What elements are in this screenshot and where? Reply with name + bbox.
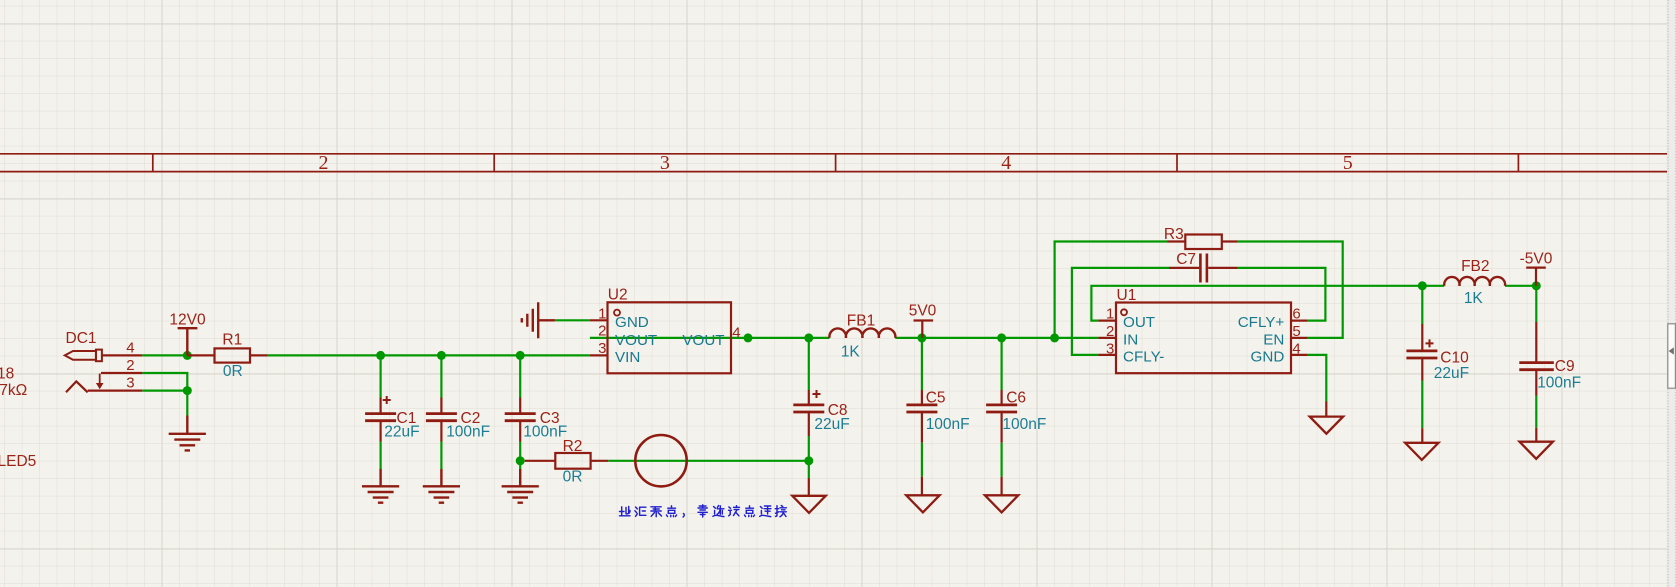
resistor R1: [187, 348, 267, 362]
U2 pin1 marker circle: [614, 310, 620, 316]
connector DC1 pin 4: [102, 354, 142, 356]
wire FB1 to 5V junction then to U1 IN: [895, 337, 1098, 339]
IC U2 box: [608, 302, 732, 373]
junction DC1 12V: [183, 351, 192, 360]
svg-text:GND: GND: [615, 314, 649, 331]
svg-text:U2: U2: [608, 287, 628, 304]
wire C10 tap: [1421, 286, 1423, 324]
svg-text:2: 2: [319, 152, 329, 174]
svg-text:2: 2: [126, 357, 134, 374]
svg-text:7kΩ: 7kΩ: [0, 382, 27, 399]
svg-text:1K: 1K: [841, 344, 861, 361]
svg-text:C10: C10: [1440, 349, 1469, 366]
svg-text:LED5: LED5: [0, 453, 36, 470]
svg-text:100nF: 100nF: [1537, 374, 1581, 391]
svg-text:3: 3: [126, 375, 134, 392]
wire DC1 pin4 to 12V junction: [142, 354, 187, 356]
wire FB2 to -5V junction: [1505, 285, 1536, 287]
wire C3 tap: [519, 355, 521, 397]
U2 pin 1 stub: [590, 319, 608, 321]
junction C3-R2: [516, 456, 525, 465]
svg-text:100nF: 100nF: [926, 416, 970, 433]
wire DC1 pin2 to down corner: [142, 373, 187, 391]
ground under C2: [423, 469, 460, 503]
svg-text:FB2: FB2: [1461, 258, 1489, 275]
glyph kao: [698, 505, 707, 517]
ferrite bead FB1: [829, 328, 895, 337]
wire DC1 junction down to ground: [186, 391, 188, 416]
junction C3: [516, 351, 525, 360]
connector DC1 barrel jack: [65, 350, 102, 362]
scrollbar thumb: [1668, 324, 1676, 388]
wire C5 tap: [921, 338, 923, 390]
U1 pin1 marker circle: [1121, 309, 1127, 315]
svg-text:5: 5: [1343, 152, 1353, 174]
junction 5V R3 branch: [1050, 333, 1059, 342]
ground under C3: [502, 469, 539, 503]
glyph gai: [729, 506, 740, 516]
svg-text:FB1: FB1: [847, 313, 875, 330]
capacitor C2: [426, 398, 457, 442]
wire R2 to circle to C8 ground junction: [608, 460, 809, 462]
wire C10 lower: [1421, 381, 1423, 429]
svg-text:6: 6: [1292, 306, 1300, 323]
triangle ground at U1 GND: [1310, 417, 1343, 434]
sheet border zone strip: [0, 154, 1667, 172]
glyph hui: [635, 507, 646, 516]
glyph jie: [775, 506, 786, 517]
svg-text:22uF: 22uF: [814, 416, 849, 433]
svg-text:4: 4: [732, 324, 740, 341]
svg-text:4: 4: [126, 339, 134, 356]
wire CFLY- to C7 left: [1072, 268, 1169, 355]
triangle ground under C10: [1405, 443, 1438, 460]
svg-text:5V0: 5V0: [909, 303, 937, 320]
svg-text:18: 18: [0, 366, 14, 383]
glyph lian: [760, 506, 771, 517]
svg-text:3: 3: [660, 152, 670, 174]
glyph di: [620, 507, 631, 516]
power 12V0 symbol: [178, 328, 198, 355]
svg-text:VOUT: VOUT: [615, 332, 657, 349]
svg-text:U1: U1: [1117, 287, 1137, 304]
glyph dian: [667, 506, 677, 517]
svg-text:3: 3: [598, 340, 606, 357]
svg-text:100nF: 100nF: [523, 424, 567, 441]
svg-text:22uF: 22uF: [1434, 365, 1469, 382]
scrollbar collapse arrow: [1669, 347, 1674, 354]
svg-text:CFLY-: CFLY-: [1123, 348, 1164, 365]
triangle ground under C5: [906, 495, 939, 512]
svg-text:0R: 0R: [223, 363, 243, 380]
wire C2 tap: [440, 355, 442, 397]
glyph dian2: [745, 506, 755, 517]
connector DC1 pin 2: [101, 372, 142, 374]
wire C7 right to CFLY+: [1238, 268, 1326, 321]
capacitor C6: [986, 390, 1017, 443]
capacitor C5: [906, 390, 937, 443]
svg-text:C7: C7: [1176, 251, 1196, 268]
svg-text:1K: 1K: [1464, 290, 1484, 307]
svg-text:-5V0: -5V0: [1520, 251, 1553, 268]
wire C5 lower: [921, 443, 923, 477]
connector DC1 switch arrow: [96, 374, 104, 390]
svg-text:R1: R1: [222, 332, 242, 349]
svg-text:100nF: 100nF: [1002, 416, 1046, 433]
svg-text:22uF: 22uF: [384, 424, 419, 441]
svg-text:CFLY+: CFLY+: [1238, 314, 1285, 331]
svg-text:VIN: VIN: [615, 349, 640, 366]
sideways ground at U2 GND: [522, 302, 555, 338]
svg-text:5: 5: [1292, 323, 1300, 340]
resistor R3: [1168, 235, 1238, 250]
junction C8 top: [804, 333, 813, 342]
svg-text:C6: C6: [1006, 390, 1026, 407]
glyph comma: [683, 514, 684, 518]
svg-text:4: 4: [1001, 152, 1011, 174]
net-tie circle: [635, 435, 686, 486]
wire R3 right to EN: [1238, 242, 1343, 338]
svg-text:3: 3: [1106, 340, 1114, 357]
junction C1: [376, 351, 385, 360]
wire C1 lower: [380, 442, 382, 470]
wire C1 tap: [380, 355, 382, 397]
triangle ground under C8: [792, 496, 825, 513]
capacitor C1 (polarized): [365, 396, 396, 442]
svg-text:2: 2: [598, 323, 606, 340]
wire 5V up to R3 row: [1055, 242, 1168, 338]
svg-text:OUT: OUT: [1123, 314, 1155, 331]
Chinese note text (hand-drawn glyphs): [620, 505, 787, 517]
wire U1 OUT rail to FB2: [1091, 286, 1444, 321]
junction -5V C9: [1532, 281, 1541, 290]
wire C8 lower through junction: [808, 436, 810, 478]
glyph ju: [651, 507, 662, 517]
svg-text:1: 1: [1106, 306, 1114, 323]
wire C3 lower to R2 junction: [519, 442, 521, 470]
wire C9 tap: [1535, 286, 1537, 322]
power 5V0 symbol: [914, 321, 934, 338]
U1 pin stubs right: [1291, 321, 1308, 355]
junction C2: [437, 351, 446, 360]
wire U1 GND pin to ground: [1308, 355, 1327, 402]
capacitor C9: [1519, 322, 1554, 396]
U1 pin stubs left: [1098, 321, 1116, 355]
svg-text:1: 1: [598, 305, 606, 322]
IC U1 box: [1116, 303, 1291, 374]
ferrite bead FB2: [1444, 277, 1505, 286]
wire 12V rail R1 to U2 VIN: [268, 354, 590, 356]
triangle ground under C9: [1520, 442, 1553, 459]
scrollbar track: [1668, 0, 1676, 587]
wire C9 lower: [1535, 396, 1537, 428]
connector DC1 switch contact: [66, 381, 88, 392]
connector DC1 pin 3: [88, 390, 143, 392]
resistor R2: [525, 453, 609, 469]
junction C8 bottom: [804, 456, 813, 465]
svg-text:R2: R2: [563, 438, 583, 455]
capacitor C10 (polarized): [1406, 324, 1437, 381]
wire U2 VOUT rail through box to FB1: [590, 337, 830, 339]
junction 5V C6: [997, 333, 1006, 342]
svg-text:GND: GND: [1251, 348, 1285, 365]
svg-text:2: 2: [1106, 323, 1114, 340]
power -5V0 symbol: [1526, 268, 1546, 286]
junction C10: [1418, 281, 1427, 290]
wire C8 top tap: [808, 338, 810, 390]
svg-text:0R: 0R: [563, 469, 583, 486]
triangle ground under C6: [985, 495, 1018, 512]
wire C2 lower: [440, 442, 442, 470]
junction 5V C5: [917, 333, 926, 342]
svg-text:DC1: DC1: [66, 330, 97, 347]
svg-text:VOUT: VOUT: [682, 332, 724, 349]
ground under C1: [362, 469, 399, 503]
junction U2 VOUT: [744, 333, 753, 342]
svg-text:4: 4: [1292, 340, 1300, 357]
wire C6 tap: [1000, 338, 1002, 390]
U2 pin 3 stub: [590, 354, 608, 356]
wire DC1 pin3 to ground junction: [142, 390, 187, 392]
svg-text:12V0: 12V0: [169, 311, 206, 328]
glyph jin: [713, 506, 724, 517]
svg-text:C9: C9: [1555, 358, 1575, 375]
capacitor C8 (polarized): [793, 390, 824, 436]
wire U2 GND to sideways ground: [555, 319, 590, 321]
svg-text:100nF: 100nF: [446, 424, 490, 441]
junction DC1 gnd: [183, 386, 192, 395]
svg-text:C5: C5: [926, 390, 946, 407]
svg-text:IN: IN: [1123, 331, 1138, 348]
ground under DC1: [169, 416, 206, 451]
wire C6 lower: [1000, 443, 1002, 477]
svg-text:EN: EN: [1263, 331, 1284, 348]
capacitor C7: [1169, 254, 1238, 283]
svg-text:R3: R3: [1164, 226, 1184, 243]
capacitor C3: [505, 398, 536, 442]
